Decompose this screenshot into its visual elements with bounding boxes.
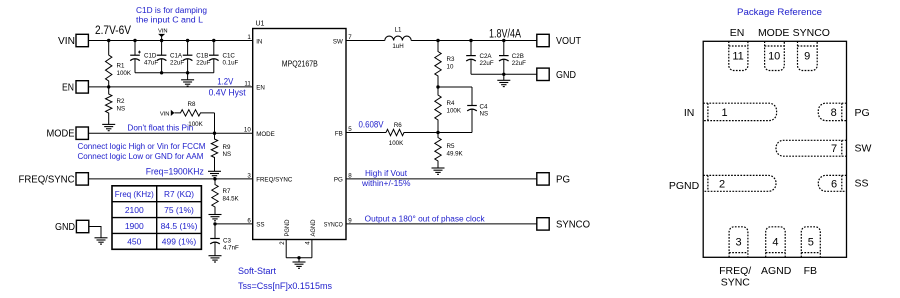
wire FB	[346, 132, 386, 134]
svg-text:11: 11	[244, 80, 251, 87]
capacitor C4 NS	[471, 87, 473, 106]
svg-text:GND: GND	[556, 70, 576, 81]
wire FREQ/SYNC	[89, 178, 253, 180]
svg-text:Freq=1900KHz: Freq=1900KHz	[146, 167, 204, 177]
svg-text:FB: FB	[804, 265, 817, 277]
svg-text:100K: 100K	[117, 70, 132, 77]
wire output caps bottom rail to GND terminal	[471, 73, 537, 75]
terminal GND (output)	[537, 68, 549, 80]
svg-text:FREQ/: FREQ/	[719, 265, 751, 277]
wire EN	[89, 86, 253, 88]
ground (C3)	[209, 255, 222, 257]
svg-text:22uF: 22uF	[480, 60, 494, 67]
svg-text:the input C and L: the input C and L	[136, 16, 204, 25]
terminal GND (left)	[76, 220, 88, 232]
capacitor C1C 0.1uF	[213, 41, 215, 56]
wire SYNCO	[346, 223, 537, 225]
svg-text:R9: R9	[223, 144, 231, 151]
svg-text:SYNCO: SYNCO	[556, 220, 590, 231]
svg-text:IN: IN	[684, 107, 695, 119]
junction dots on VIN rail at caps	[133, 39, 136, 42]
svg-text:C4: C4	[480, 104, 488, 111]
svg-text:FB: FB	[335, 130, 343, 137]
wire PGND-AGND join	[286, 257, 312, 259]
svg-text:NS: NS	[117, 106, 126, 113]
svg-text:5: 5	[348, 126, 352, 133]
resistor R5 49.9K	[435, 133, 441, 169]
junction FREQ/SYNC-R7	[213, 177, 216, 180]
svg-text:R4: R4	[447, 100, 455, 107]
svg-text:Connect logic High or Vin for: Connect logic High or Vin for FCCM	[78, 142, 206, 151]
svg-text:49.9K: 49.9K	[447, 151, 464, 158]
svg-text:3: 3	[247, 172, 251, 179]
capacitor C2A 22uF	[470, 41, 472, 56]
svg-text:VIN: VIN	[158, 28, 168, 34]
svg-text:MODE: MODE	[47, 129, 75, 140]
svg-text:2: 2	[719, 178, 725, 190]
resistor R9 NS	[211, 133, 217, 171]
svg-text:C3: C3	[223, 238, 231, 245]
capacitor C2B 22uF	[503, 41, 505, 56]
capacitor C3 4.7nF	[214, 224, 216, 239]
svg-text:IN: IN	[256, 38, 262, 45]
wire SW to L1	[346, 40, 385, 42]
ground (R2)	[102, 123, 115, 125]
svg-text:1uH: 1uH	[392, 43, 403, 50]
svg-text:1900: 1900	[125, 221, 144, 231]
svg-text:22uF: 22uF	[512, 60, 526, 67]
svg-text:84.5 (1%): 84.5 (1%)	[161, 221, 198, 231]
wire SS	[215, 223, 253, 225]
svg-text:C1B: C1B	[196, 53, 208, 60]
svg-text:4.7nF: 4.7nF	[223, 245, 239, 252]
terminal PG	[537, 173, 549, 185]
svg-text:8: 8	[831, 107, 837, 119]
svg-text:5: 5	[808, 237, 814, 249]
svg-text:R7: R7	[223, 188, 231, 195]
junction FB node	[436, 131, 439, 134]
svg-text:MPQ2167B: MPQ2167B	[282, 60, 318, 69]
wire MODE	[89, 132, 253, 134]
svg-text:C1D is for damping: C1D is for damping	[136, 6, 207, 15]
terminal FREQ/SYNC	[76, 173, 88, 185]
ground (input caps)	[187, 73, 189, 80]
svg-text:NS: NS	[480, 111, 489, 118]
capacitor C1D 47uF	[134, 41, 136, 56]
svg-text:SW: SW	[855, 143, 872, 155]
svg-text:High if Vout: High if Vout	[365, 169, 408, 178]
resistor R6 100K	[386, 129, 438, 135]
svg-text:Don't float this Pin: Don't float this Pin	[127, 123, 193, 132]
svg-text:100K: 100K	[447, 108, 462, 115]
package pin 7 SW	[776, 140, 847, 156]
svg-text:U1: U1	[256, 21, 265, 28]
resistor R2 NS	[106, 87, 112, 125]
svg-text:499 (1%): 499 (1%)	[162, 237, 197, 247]
svg-text:100K: 100K	[389, 140, 404, 147]
svg-text:10: 10	[244, 127, 251, 134]
svg-text:9: 9	[804, 51, 810, 63]
svg-text:1.2V: 1.2V	[217, 77, 233, 87]
svg-text:2.7V-6V: 2.7V-6V	[95, 25, 131, 37]
svg-text:PG: PG	[556, 175, 570, 186]
svg-text:R6: R6	[394, 122, 402, 129]
svg-text:R8: R8	[188, 101, 196, 108]
svg-text:6: 6	[247, 217, 251, 224]
svg-text:FREQ/SYNC: FREQ/SYNC	[19, 174, 75, 185]
wire VIN rail	[89, 40, 253, 42]
terminal VIN	[76, 34, 88, 46]
package pin 6 SS	[818, 175, 846, 191]
svg-text:3: 3	[735, 237, 741, 249]
wire R3-R4 node to C4	[438, 86, 472, 88]
wire L1 to VOUT	[411, 40, 537, 42]
IC U1 MPQ2167B	[253, 29, 346, 240]
svg-text:0.4V Hyst: 0.4V Hyst	[209, 88, 246, 98]
svg-text:NS: NS	[223, 151, 232, 158]
svg-text:AGND: AGND	[310, 219, 317, 236]
svg-text:Output a 180° out of phase clo: Output a 180° out of phase clock	[365, 214, 486, 223]
terminal MODE	[76, 127, 88, 139]
svg-text:C1A: C1A	[170, 53, 183, 60]
svg-text:EN: EN	[730, 27, 745, 39]
ground (R9)	[208, 170, 221, 172]
svg-text:within+/-15%: within+/-15%	[361, 179, 411, 188]
ground (GND terminal)	[95, 237, 108, 239]
svg-text:8: 8	[348, 172, 352, 179]
svg-text:2: 2	[280, 241, 286, 245]
svg-text:9: 9	[348, 217, 352, 224]
svg-text:PGND: PGND	[669, 180, 700, 192]
svg-text:47uF: 47uF	[144, 60, 158, 67]
terminal VOUT	[537, 34, 549, 46]
svg-text:EN: EN	[256, 85, 265, 92]
svg-text:SS: SS	[256, 222, 264, 229]
svg-text:Soft-Start: Soft-Start	[238, 266, 276, 276]
svg-text:PG: PG	[334, 177, 343, 184]
svg-text:MODE: MODE	[256, 131, 275, 138]
svg-text:10: 10	[447, 64, 454, 71]
svg-text:Tss=Css[nF]x0.1515ms: Tss=Css[nF]x0.1515ms	[238, 281, 332, 291]
svg-text:4: 4	[772, 237, 778, 249]
junction VIN-R1	[107, 39, 110, 42]
svg-text:C1C: C1C	[223, 53, 236, 60]
svg-text:0.608V: 0.608V	[359, 119, 384, 129]
package pin 8 PG	[818, 103, 846, 120]
package outline	[703, 41, 846, 257]
svg-text:AGND: AGND	[761, 265, 792, 277]
svg-text:C1D: C1D	[144, 53, 157, 60]
svg-text:1: 1	[247, 34, 251, 41]
svg-text:0.1uF: 0.1uF	[223, 60, 239, 67]
inductor L1 1uH	[385, 36, 411, 40]
wire PG	[346, 178, 537, 180]
svg-text:1.8V/4A: 1.8V/4A	[489, 29, 521, 41]
wire GND terminal to ground	[89, 227, 101, 238]
junction EN-R1-R2	[107, 85, 110, 88]
svg-text:7: 7	[831, 143, 837, 155]
svg-text:SYNC: SYNC	[721, 277, 751, 289]
svg-text:SYNCO: SYNCO	[793, 27, 830, 39]
svg-text:Package Reference: Package Reference	[737, 7, 822, 18]
svg-text:R1: R1	[117, 63, 125, 70]
svg-text:C2B: C2B	[512, 53, 524, 60]
svg-text:C2A: C2A	[480, 53, 493, 60]
svg-text:R7 (KΩ): R7 (KΩ)	[164, 189, 194, 199]
resistor R3 10	[435, 41, 441, 88]
package pin 4 AGND	[766, 227, 786, 257]
svg-text:SYNCO: SYNCO	[324, 222, 343, 229]
terminal EN	[76, 81, 88, 93]
package pin 5 FB	[801, 227, 820, 257]
capacitor C1A 22uF	[161, 41, 163, 56]
terminal SYNCO	[537, 218, 549, 230]
svg-text:75 (1%): 75 (1%)	[164, 205, 194, 215]
svg-text:PG: PG	[855, 107, 870, 119]
svg-text:R3: R3	[447, 56, 455, 63]
svg-text:PGND: PGND	[284, 219, 291, 236]
svg-text:VIN: VIN	[58, 36, 75, 47]
svg-text:FREQ/SYNC: FREQ/SYNC	[256, 177, 293, 184]
svg-text:1: 1	[721, 107, 727, 119]
svg-text:2100: 2100	[125, 205, 144, 215]
svg-text:4: 4	[306, 241, 312, 245]
svg-text:7: 7	[348, 34, 352, 41]
svg-text:84.5K: 84.5K	[223, 196, 240, 203]
resistor R1 100K	[106, 41, 112, 87]
junction MODE-R8-R9	[213, 132, 216, 135]
svg-text:11: 11	[732, 51, 743, 63]
svg-text:Freq (KHz): Freq (KHz)	[115, 189, 154, 199]
ground (PGND/AGND)	[293, 261, 306, 263]
svg-text:L1: L1	[395, 27, 402, 34]
package pin 3 FREQ/SYNC	[729, 227, 748, 257]
svg-text:10: 10	[768, 51, 780, 63]
svg-text:EN: EN	[62, 83, 74, 94]
svg-text:450: 450	[127, 237, 141, 247]
svg-text:SW: SW	[333, 38, 343, 45]
resistor R7 84.5K	[212, 179, 218, 215]
resistor R4 100K	[435, 87, 441, 133]
svg-text:GND: GND	[55, 222, 75, 233]
resistor R8 100K	[174, 110, 214, 116]
svg-text:R5: R5	[447, 143, 455, 150]
svg-text:VOUT: VOUT	[556, 36, 581, 47]
svg-text:6: 6	[831, 178, 837, 190]
svg-text:SS: SS	[855, 178, 869, 190]
ground (R5)	[432, 167, 445, 169]
wire input caps bottom rail	[135, 72, 214, 74]
svg-text:MODE: MODE	[758, 27, 790, 39]
table Freq vs R7	[112, 186, 201, 250]
svg-text:22uF: 22uF	[170, 60, 184, 67]
svg-text:R2: R2	[117, 98, 125, 105]
ground (output caps)	[503, 74, 505, 80]
svg-text:Connect logic Low or GND for A: Connect logic Low or GND for AAM	[78, 152, 204, 161]
svg-text:VIN: VIN	[160, 111, 170, 117]
ground (R7)	[209, 214, 222, 216]
capacitor C1B 22uF	[187, 41, 189, 56]
svg-text:22uF: 22uF	[196, 60, 210, 67]
